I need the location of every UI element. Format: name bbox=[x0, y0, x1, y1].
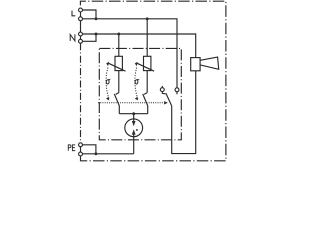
wire L bus bbox=[82, 19, 177, 88]
enclosure border (outer dash-dot box) bbox=[80, 1, 226, 161]
label PE bbox=[68, 145, 75, 151]
terminal PE out bbox=[79, 152, 83, 156]
wire PE jog bbox=[82, 145, 96, 154]
linkage arrowhead bbox=[164, 101, 168, 104]
changeover blade bbox=[166, 93, 172, 106]
buzzer H1 bbox=[191, 57, 219, 71]
junction varistor2 tap bbox=[146, 17, 149, 20]
wire GDT upper bbox=[133, 114, 135, 119]
gas discharge tube F1 bbox=[125, 119, 143, 137]
junction varistor1 tap bbox=[117, 33, 120, 36]
wire L jog bbox=[82, 10, 96, 19]
junction PE jog bbox=[94, 152, 97, 155]
wire N bus bbox=[82, 34, 195, 58]
junction L jog bbox=[95, 17, 98, 20]
wire N jog bbox=[82, 34, 96, 41]
disconnector switch 2 bbox=[143, 93, 148, 114]
terminal link L-N solid bbox=[80, 10, 82, 41]
wire varistor2 bottom bbox=[146, 71, 148, 93]
wire varistor2 top bbox=[146, 19, 148, 57]
thermal arc 2 bbox=[135, 62, 138, 101]
inner dash-dot box (thermal disconnector module) bbox=[99, 48, 181, 139]
terminal L out bbox=[79, 17, 83, 21]
changeover contact right pole bbox=[175, 88, 179, 94]
theta label 1 bbox=[106, 80, 110, 84]
wire changeover common to buzzer bbox=[172, 71, 196, 154]
label L bbox=[72, 11, 75, 16]
varistor R2 (VDR) bbox=[137, 56, 154, 71]
wire varistor1 top bbox=[118, 34, 120, 56]
enclosure border left edge dash-dot (terminal column D to E) bbox=[80, 43, 82, 143]
linkage dotted line bbox=[99, 102, 165, 104]
disconnector switch 1 bbox=[114, 93, 119, 114]
label N bbox=[70, 34, 75, 41]
wire varistor1 bottom bbox=[118, 71, 120, 93]
junction N jog bbox=[95, 33, 98, 36]
wire PE bus bbox=[82, 153, 133, 155]
varistor R1 (VDR) bbox=[109, 56, 126, 71]
changeover contact left pole bbox=[160, 86, 165, 94]
terminal PE in bbox=[79, 143, 83, 147]
thermal arc 1 bbox=[106, 62, 109, 101]
wire branch join bbox=[119, 113, 147, 115]
terminal link PE solid bbox=[80, 145, 82, 154]
theta label 2 bbox=[135, 80, 139, 84]
wire GDT to PE bbox=[133, 137, 135, 154]
terminal N in bbox=[79, 32, 83, 36]
terminal N out bbox=[79, 39, 83, 43]
junction GDT top bbox=[132, 112, 135, 115]
terminal L in bbox=[79, 8, 83, 12]
